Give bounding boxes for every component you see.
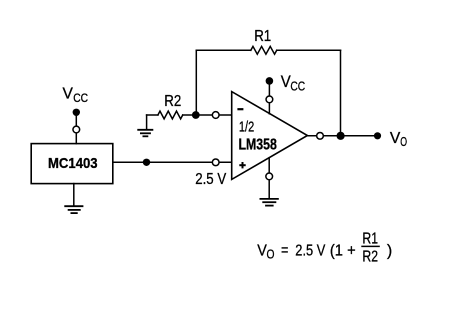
MC1403 box U1 <box>31 144 113 184</box>
svg-text:V: V <box>63 86 74 103</box>
svg-text:O: O <box>400 135 407 149</box>
Vcc terminal dot (op-amp supply) <box>266 77 274 85</box>
terminal dot: Vo <box>374 132 381 139</box>
label Vcc (left) <box>63 86 89 105</box>
Vcc terminal dot (left) <box>73 109 80 116</box>
svg-text:R2: R2 <box>164 93 181 110</box>
pin circle: op-amp V+ pin <box>266 96 273 103</box>
pin circle: MC1403 Vin <box>73 126 80 133</box>
label Vo <box>390 130 407 149</box>
formula Vo = 2.5 V (1 + R1/R2) <box>257 242 355 261</box>
svg-text:CC: CC <box>73 91 88 105</box>
pin circle: op-amp - input <box>212 112 219 119</box>
svg-text:R2: R2 <box>362 249 378 266</box>
resistor R1 <box>251 46 277 54</box>
svg-text:2.5 V: 2.5 V <box>295 243 325 260</box>
svg-text:MC1403: MC1403 <box>48 155 98 172</box>
wire: op-amp output to Vo terminal <box>307 135 377 137</box>
svg-text:V: V <box>390 130 401 147</box>
wire: feedback down to output node <box>340 50 342 136</box>
svg-text:(1 +: (1 + <box>330 243 356 260</box>
wire: Vcc dot down to op-amp power pin <box>268 81 270 114</box>
op-amp - input sign <box>237 108 243 110</box>
svg-text:=: = <box>281 242 288 259</box>
svg-text:O: O <box>267 246 275 261</box>
junction dot: output / feedback <box>337 132 345 140</box>
svg-text:1/2: 1/2 <box>239 118 254 135</box>
formula fraction bar <box>361 245 380 247</box>
op-amp + input sign <box>239 162 245 168</box>
wire: MC1403 output to op-amp + input (2.5V node) <box>113 161 232 163</box>
svg-text:): ) <box>387 243 392 260</box>
svg-text:V: V <box>281 73 291 91</box>
resistor R2 <box>158 111 183 119</box>
pin circle: op-amp + input <box>212 159 219 166</box>
svg-text:CC: CC <box>290 78 305 93</box>
ground (op-amp negative supply) <box>260 199 278 206</box>
junction dot: 2.5V node on wire <box>143 159 150 166</box>
svg-text:R1: R1 <box>362 231 378 248</box>
svg-text:2.5 V: 2.5 V <box>195 171 226 188</box>
pin circle: op-amp output <box>317 132 324 139</box>
wire: Vcc terminal down to MC1403 Vin <box>75 112 77 143</box>
wire: R2 to op-amp - input <box>183 114 232 116</box>
wire: ground to R2 <box>147 114 158 116</box>
wire: feedback node up to top rail <box>195 50 197 115</box>
op-amp U2 triangle 1/2 LM358 <box>232 92 308 180</box>
label Vcc (op-amp supply) <box>281 73 305 94</box>
junction dot: R2 / feedback node <box>192 111 200 119</box>
ground (below MC1403) <box>65 184 82 214</box>
wire: top rail left segment <box>196 49 251 51</box>
ground (R2 left end) <box>138 115 152 136</box>
svg-text:R1: R1 <box>254 28 271 45</box>
pin circle: op-amp V- pin <box>266 173 273 180</box>
svg-text:LM358: LM358 <box>239 136 278 153</box>
wire: top rail right segment <box>277 49 341 51</box>
wire: op-amp bottom pin to ground <box>268 158 270 199</box>
